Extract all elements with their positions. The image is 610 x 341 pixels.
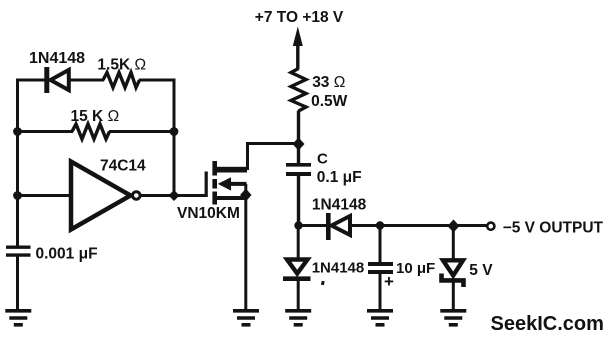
wire C2 to ground bbox=[16, 257, 19, 312]
node supply / drain bbox=[293, 138, 305, 151]
wire Q1 source to ground bbox=[244, 184, 247, 311]
op-amp U1 74C14 inverter bbox=[71, 162, 140, 230]
output terminal circle bbox=[487, 223, 494, 230]
wire zener top bbox=[452, 226, 455, 261]
wire 15K row right bbox=[109, 130, 176, 133]
diode D3 1N4148 shunt bbox=[283, 260, 311, 279]
wire R1 to right rail bbox=[139, 79, 176, 82]
resistor R3 33 ohm 0.5W bbox=[291, 69, 306, 112]
svg-text:+7 TO +18 V: +7 TO +18 V bbox=[255, 9, 344, 26]
ground under Q1 source bbox=[233, 311, 259, 325]
wire 10uF top bbox=[379, 226, 382, 264]
svg-text:10 μF: 10 μF bbox=[396, 260, 435, 277]
wire shunt diode top bbox=[297, 226, 300, 261]
diode D1 1N4148 feedback bbox=[47, 67, 69, 93]
capacitor C3 10uF bbox=[368, 264, 393, 272]
supply arrow bbox=[293, 27, 303, 47]
svg-text:SeekIC.com: SeekIC.com bbox=[491, 313, 604, 335]
svg-text:1.5K Ω: 1.5K Ω bbox=[97, 57, 146, 74]
svg-text:0.5W: 0.5W bbox=[311, 93, 348, 110]
diode D2 1N4148 series bbox=[328, 213, 350, 240]
node zener / output line bbox=[448, 220, 460, 233]
resistor R2 15K bbox=[72, 124, 110, 139]
wire D2 to output bbox=[350, 224, 487, 227]
label D3 tick mark bbox=[321, 281, 325, 286]
wire left rail bbox=[16, 79, 19, 247]
svg-text:0.1 μF: 0.1 μF bbox=[317, 169, 362, 186]
wire C to output node bbox=[297, 175, 300, 226]
node left rail / inverter input bbox=[13, 191, 22, 200]
node inverter output / right rail bbox=[169, 190, 180, 201]
capacitor C 0.1uF bbox=[286, 165, 311, 174]
node D2 / 10uF bbox=[376, 221, 384, 229]
zener D4 5V bbox=[442, 260, 464, 287]
ground under 10uF bbox=[367, 311, 393, 325]
ground left bbox=[5, 311, 31, 325]
svg-text:0.001 μF: 0.001 μF bbox=[36, 246, 98, 263]
svg-text:5 V: 5 V bbox=[469, 262, 493, 279]
svg-text:1N4148: 1N4148 bbox=[312, 197, 367, 214]
node C / diodes bbox=[294, 221, 302, 229]
svg-text:VN10KM: VN10KM bbox=[177, 205, 240, 222]
transistor Q1 VN10KM bbox=[205, 161, 247, 205]
svg-text:−5 V OUTPUT: −5 V OUTPUT bbox=[503, 219, 604, 236]
wire right rail bbox=[173, 79, 176, 196]
ground under D3 bbox=[285, 311, 311, 325]
wire inverter output bbox=[141, 194, 207, 197]
wire drain to supply node bbox=[246, 142, 299, 145]
node left rail / 15K bbox=[13, 127, 22, 136]
svg-text:33 Ω: 33 Ω bbox=[312, 74, 345, 91]
wire Q1 drain vertical bbox=[246, 144, 249, 171]
wire node to D2 bbox=[299, 224, 328, 227]
ground under zener bbox=[440, 311, 466, 325]
svg-text:1N4148: 1N4148 bbox=[29, 50, 85, 67]
wire 15K row left bbox=[16, 130, 73, 133]
wire 10uF to ground bbox=[379, 273, 382, 312]
capacitor C2 0.001uF bbox=[6, 247, 31, 255]
svg-text:1N4148: 1N4148 bbox=[312, 259, 365, 276]
svg-text:+: + bbox=[384, 272, 394, 291]
wire inverter input bbox=[16, 194, 71, 197]
wire zener to ground bbox=[452, 282, 455, 311]
svg-text:15 K Ω: 15 K Ω bbox=[71, 108, 120, 125]
resistor R1 1.5K bbox=[103, 73, 140, 88]
wire R3 to C bbox=[297, 111, 300, 164]
wire D1 to R1 bbox=[69, 79, 105, 82]
svg-text:74C14: 74C14 bbox=[100, 158, 146, 175]
wire supply stem bbox=[296, 40, 299, 69]
svg-text:C: C bbox=[317, 151, 328, 168]
node right rail / 15K bbox=[170, 127, 179, 136]
wire top-left horizontal to D1 bbox=[16, 79, 45, 82]
wire D3 to ground bbox=[297, 281, 300, 312]
node Q1 source junction bbox=[240, 189, 251, 202]
